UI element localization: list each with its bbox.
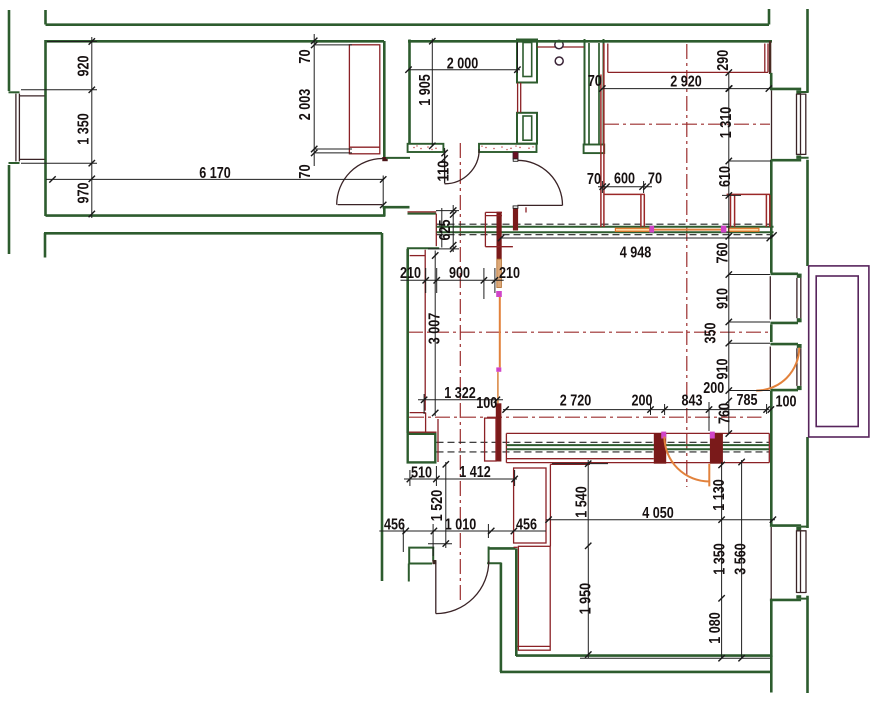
svg-text:2 003: 2 003 <box>297 89 314 121</box>
red wardrobe room3 <box>514 546 551 650</box>
lower band red box <box>506 433 769 462</box>
hatched wall bar 1 <box>408 144 444 152</box>
door bathroom1 leaf and arc <box>444 150 446 184</box>
svg-text:290: 290 <box>715 50 732 71</box>
dim 6170 <box>46 165 386 208</box>
hinge block lower dark bar <box>513 206 518 231</box>
wall wing bottom hline <box>488 547 515 550</box>
svg-text:456: 456 <box>384 516 405 533</box>
wall left outer upper <box>8 10 11 91</box>
svg-text:1 130: 1 130 <box>711 479 728 511</box>
svg-text:843: 843 <box>682 393 703 410</box>
dim 1322 and 100 <box>418 385 503 414</box>
dim 1540 <box>552 460 608 549</box>
orange door leaf hall <box>499 297 501 367</box>
red tick hall <box>525 207 527 212</box>
svg-text:760: 760 <box>715 242 732 263</box>
svg-text:510: 510 <box>411 465 432 482</box>
centerline horizontal room2 lower <box>409 416 762 418</box>
window room1 frame <box>16 94 45 162</box>
svg-text:1 010: 1 010 <box>445 517 477 534</box>
window room1 bottom jog <box>9 162 20 164</box>
red hline room3 top <box>550 463 590 465</box>
wall room3 left face <box>515 548 518 656</box>
svg-text:456: 456 <box>516 516 537 533</box>
svg-text:2 000: 2 000 <box>447 56 479 73</box>
svg-text:210: 210 <box>499 265 520 282</box>
wing door pocket <box>408 548 434 582</box>
desk west room3 <box>601 44 645 228</box>
wing door right jamb <box>487 547 501 564</box>
door wing leaf and arc <box>435 561 437 613</box>
svg-text:1 520: 1 520 <box>429 490 446 522</box>
svg-text:100: 100 <box>476 395 497 412</box>
red vline wing <box>424 250 426 411</box>
band jog red green lines <box>408 211 437 213</box>
svg-text:1 310: 1 310 <box>718 107 735 139</box>
door room2-room3 orange arc <box>664 437 709 487</box>
wall right outer <box>806 9 809 693</box>
wall left outer lower <box>8 165 11 254</box>
pier hall vertical dark <box>497 212 502 259</box>
wall bottom inner <box>516 654 771 657</box>
wall room1 right face <box>383 41 386 160</box>
magenta hinge hall upper <box>496 291 502 297</box>
dim 210 900 210 <box>400 265 520 299</box>
magenta hinge west <box>661 432 666 439</box>
dim baseline bottom <box>580 657 770 659</box>
centerline horizontal room3 top <box>604 123 770 125</box>
dim 625 <box>428 205 459 252</box>
centerline vertical hall <box>459 143 461 604</box>
red door jamb line bathroom <box>518 83 521 113</box>
dashed wall lines upper band <box>437 224 772 235</box>
dim 2000 <box>405 42 520 73</box>
hinge block bathroom2 <box>513 152 518 159</box>
magenta hinge east <box>710 432 715 439</box>
magenta hinge hall lower <box>496 367 501 371</box>
dim 1950 <box>578 548 595 658</box>
orange sill bars room3 <box>615 228 649 231</box>
svg-text:70: 70 <box>297 164 314 178</box>
svg-text:970: 970 <box>76 182 93 203</box>
svg-text:3 560: 3 560 <box>733 543 750 575</box>
pier hall narrow dark <box>497 259 502 287</box>
red closet room3 <box>608 44 768 73</box>
red lines hall left <box>485 212 513 246</box>
svg-text:625: 625 <box>437 219 454 240</box>
green box duct <box>408 434 436 463</box>
window E4 caps <box>770 526 801 600</box>
dim 1130 1350 1080 <box>707 462 729 662</box>
red vline left of hall door <box>437 419 439 462</box>
svg-text:610: 610 <box>717 166 734 187</box>
centerline vertical room3 <box>686 44 688 487</box>
svg-text:100: 100 <box>776 393 797 410</box>
lower band red inner line <box>506 458 653 460</box>
wall bottom right vertical <box>770 656 773 693</box>
svg-text:200: 200 <box>703 380 724 397</box>
wall room1 top face <box>46 40 385 43</box>
wall wing outer top <box>44 232 382 235</box>
wall column C bathroom <box>517 113 537 144</box>
wall right inner face segments <box>769 41 771 74</box>
dim 4948 <box>498 232 777 261</box>
svg-text:900: 900 <box>449 265 470 282</box>
door jamb room1 <box>382 157 387 161</box>
door bathroom2 leaf and arc <box>517 204 562 206</box>
pier hall lower dark <box>496 403 502 461</box>
dim left chain 920 1350 970 <box>21 37 97 218</box>
svg-text:6 170: 6 170 <box>199 165 231 182</box>
svg-text:785: 785 <box>737 392 758 409</box>
red vline band left <box>435 214 437 247</box>
svg-text:1 350: 1 350 <box>76 113 93 145</box>
svg-text:70: 70 <box>588 73 602 90</box>
svg-text:3 007: 3 007 <box>427 313 444 345</box>
svg-text:70: 70 <box>297 49 314 63</box>
red line above duct <box>409 431 437 433</box>
band jog left green <box>383 206 410 217</box>
window room1 top jog <box>9 91 20 93</box>
wall wing left face vertical <box>406 249 409 433</box>
red hline wing <box>410 255 426 257</box>
svg-text:1 322: 1 322 <box>444 385 476 402</box>
window E3 frame <box>770 347 801 389</box>
svg-text:200: 200 <box>632 393 653 410</box>
red box wing <box>514 468 546 543</box>
green corner lower <box>407 247 439 249</box>
wall column B bathroom <box>584 39 605 153</box>
svg-text:910: 910 <box>715 288 732 309</box>
red vline wardrobe top <box>549 464 551 546</box>
wall wing left <box>381 233 384 581</box>
wall top outer <box>46 23 770 26</box>
wall corridor left face <box>408 40 411 145</box>
dim 2920 <box>588 73 772 92</box>
window E1 jogs <box>771 89 802 160</box>
dashed wall lines lower band <box>437 442 770 452</box>
wall stub below corridor <box>386 157 410 159</box>
dim 4050 <box>545 505 776 523</box>
svg-text:910: 910 <box>715 358 732 379</box>
svg-text:1 350: 1 350 <box>712 543 729 575</box>
svg-text:4 948: 4 948 <box>620 245 652 262</box>
wall room1 bottom <box>46 214 386 217</box>
wall top face right part <box>408 40 772 43</box>
red wardrobe room1 <box>349 45 379 154</box>
dim 456 1010 456 <box>379 516 546 556</box>
lower band pier west <box>654 433 666 464</box>
window E4 frame <box>771 527 806 599</box>
dim 1905 <box>417 38 436 149</box>
window E3 caps <box>770 344 798 390</box>
centerline horizontal room2 <box>408 331 770 333</box>
lower band pier east <box>710 433 723 464</box>
window E2 frame <box>770 276 801 319</box>
svg-text:4 050: 4 050 <box>642 505 674 522</box>
desk east room3 <box>727 194 770 227</box>
svg-text:1 412: 1 412 <box>459 464 491 481</box>
dim 110 <box>436 148 453 183</box>
red L wing upper <box>410 413 426 433</box>
dim right chain 290 1310 610 760 910 350 910 200 760 <box>703 50 772 437</box>
wall left inner face <box>44 10 47 216</box>
svg-text:1 950: 1 950 <box>578 583 595 615</box>
door room1 leaf and arc <box>338 204 383 206</box>
wall wing left stub <box>44 233 47 258</box>
svg-text:920: 920 <box>76 55 93 76</box>
svg-text:1 905: 1 905 <box>417 74 434 106</box>
window E2 caps <box>770 274 798 323</box>
dim 2720 200 843 785 100 <box>502 392 796 431</box>
circles door bells <box>555 40 563 48</box>
window E1 frame <box>772 91 806 159</box>
dim 3560 <box>733 459 750 662</box>
dim 70 600 70 room3 <box>587 171 662 194</box>
magenta dots room3 <box>650 226 655 233</box>
hatched wall bar 2 <box>479 144 537 152</box>
svg-text:760: 760 <box>717 403 734 424</box>
upper band green lines <box>437 227 774 232</box>
svg-text:2 920: 2 920 <box>670 74 702 91</box>
wall top right stub <box>768 9 771 25</box>
svg-text:2 720: 2 720 <box>560 393 592 410</box>
dim 70 2003 70 <box>297 34 352 179</box>
dim 1520 <box>428 461 452 548</box>
red door frame hall <box>485 418 496 461</box>
dim 510 1412 <box>404 464 518 486</box>
wall wing right vertical <box>500 563 503 672</box>
lower band green lines <box>506 445 769 449</box>
svg-text:110: 110 <box>436 160 453 181</box>
dim 3007 <box>427 251 444 417</box>
svg-text:1 540: 1 540 <box>574 486 591 518</box>
balcony door orange arc <box>756 348 799 391</box>
balcony purple <box>809 266 869 437</box>
wall bottom outer <box>500 671 771 674</box>
svg-text:70: 70 <box>587 171 601 188</box>
svg-text:600: 600 <box>614 171 635 188</box>
wall column A bathroom <box>517 40 537 83</box>
svg-text:70: 70 <box>648 171 662 188</box>
svg-text:1 080: 1 080 <box>707 612 724 644</box>
red interior line entry <box>537 46 584 48</box>
svg-text:350: 350 <box>703 322 720 343</box>
svg-text:210: 210 <box>400 265 421 282</box>
